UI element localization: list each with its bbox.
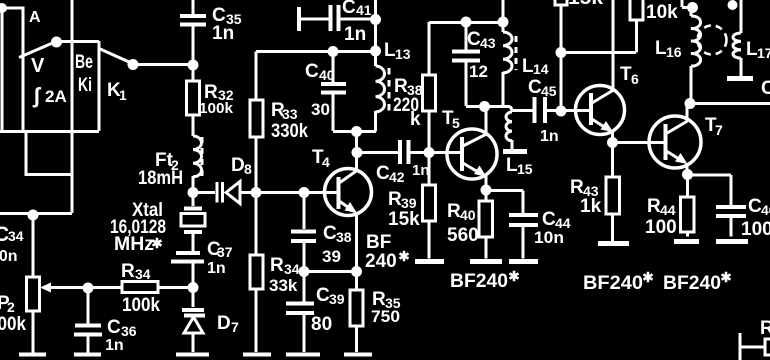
svg-text:15k: 15k	[568, 0, 603, 9]
svg-text:14: 14	[533, 61, 549, 77]
svg-text:100k: 100k	[0, 314, 26, 335]
svg-text:30: 30	[311, 100, 330, 119]
svg-text:32: 32	[218, 87, 234, 103]
svg-text:33k: 33k	[269, 276, 298, 295]
svg-text:7: 7	[231, 319, 239, 335]
svg-text:44: 44	[660, 202, 676, 218]
svg-text:BF240: BF240	[450, 271, 508, 292]
svg-text:17: 17	[757, 45, 770, 61]
svg-text:C: C	[542, 209, 556, 230]
svg-text:5: 5	[452, 115, 460, 131]
svg-text:Be: Be	[75, 52, 93, 73]
svg-text:BF: BF	[366, 232, 391, 253]
svg-text:BF240: BF240	[583, 273, 643, 294]
svg-text:35: 35	[385, 295, 401, 311]
svg-text:39: 39	[322, 247, 341, 266]
svg-text:C: C	[761, 78, 770, 99]
svg-text:13: 13	[395, 46, 411, 62]
svg-text:34: 34	[8, 228, 24, 244]
svg-text:40: 40	[460, 207, 476, 223]
svg-text:BF240: BF240	[663, 273, 721, 294]
svg-text:C: C	[342, 0, 356, 18]
svg-text:1n: 1n	[105, 337, 124, 354]
svg-text:40: 40	[319, 67, 335, 83]
svg-text:45: 45	[541, 83, 557, 99]
svg-text:C: C	[467, 29, 481, 50]
svg-text:100: 100	[645, 217, 677, 238]
svg-text:1k: 1k	[580, 196, 602, 217]
svg-text:C: C	[376, 163, 390, 184]
svg-text:C: C	[748, 196, 762, 217]
svg-text:R: R	[570, 177, 584, 198]
svg-text:100k: 100k	[122, 295, 160, 316]
svg-text:Ki: Ki	[78, 75, 92, 96]
svg-text:C: C	[316, 285, 330, 306]
svg-text:R: R	[760, 318, 770, 339]
svg-text:35: 35	[226, 11, 242, 27]
svg-text:39: 39	[329, 291, 345, 307]
svg-text:R: R	[394, 76, 408, 97]
svg-text:39: 39	[401, 195, 417, 211]
svg-text:2: 2	[7, 299, 15, 315]
svg-text:1n: 1n	[412, 162, 430, 179]
svg-text:A: A	[29, 9, 41, 26]
svg-text:C: C	[107, 317, 121, 338]
svg-text:2A: 2A	[45, 87, 67, 106]
svg-text:k: k	[410, 109, 421, 130]
svg-text:12: 12	[469, 62, 488, 81]
svg-text:43: 43	[480, 35, 496, 51]
svg-text:1n: 1n	[540, 128, 559, 145]
svg-text:R: R	[121, 261, 135, 282]
svg-text:15k: 15k	[388, 209, 420, 230]
svg-text:80: 80	[311, 314, 332, 335]
svg-text:10k: 10k	[646, 2, 678, 23]
svg-text:41: 41	[356, 2, 372, 18]
svg-text:2: 2	[171, 157, 179, 173]
svg-text:C: C	[528, 77, 542, 98]
svg-text:38: 38	[407, 82, 423, 98]
svg-text:C: C	[305, 61, 319, 82]
svg-text:R: R	[388, 189, 402, 210]
svg-text:38: 38	[336, 229, 352, 245]
svg-text:R: R	[447, 201, 461, 222]
svg-text:37: 37	[217, 244, 233, 260]
svg-text:6: 6	[631, 71, 639, 87]
svg-text:34: 34	[135, 266, 151, 282]
svg-text:D: D	[231, 155, 245, 176]
svg-text:7: 7	[715, 122, 723, 138]
svg-text:C: C	[323, 223, 337, 244]
svg-text:1n: 1n	[207, 260, 226, 277]
svg-text:46: 46	[761, 202, 770, 218]
svg-text:8: 8	[244, 161, 252, 177]
svg-text:240: 240	[365, 251, 397, 272]
svg-text:D: D	[217, 313, 231, 334]
svg-text:34: 34	[284, 261, 300, 277]
svg-text:4: 4	[322, 154, 330, 170]
svg-text:16: 16	[666, 44, 682, 60]
svg-text:R: R	[647, 196, 661, 217]
svg-text:33: 33	[282, 106, 298, 122]
svg-text:560: 560	[447, 225, 479, 246]
svg-text:MHz: MHz	[114, 234, 154, 255]
svg-text:100: 100	[741, 219, 770, 240]
svg-text:V: V	[31, 55, 45, 77]
svg-text:42: 42	[389, 169, 405, 185]
svg-text:10n: 10n	[0, 248, 18, 265]
svg-text:36: 36	[121, 323, 137, 339]
svg-text:1n: 1n	[344, 24, 366, 45]
svg-text:43: 43	[583, 183, 599, 199]
svg-text:330k: 330k	[271, 121, 308, 142]
svg-text:44: 44	[555, 215, 571, 231]
svg-text:1: 1	[119, 87, 127, 103]
svg-text:15: 15	[517, 161, 533, 177]
svg-text:R: R	[270, 255, 284, 276]
